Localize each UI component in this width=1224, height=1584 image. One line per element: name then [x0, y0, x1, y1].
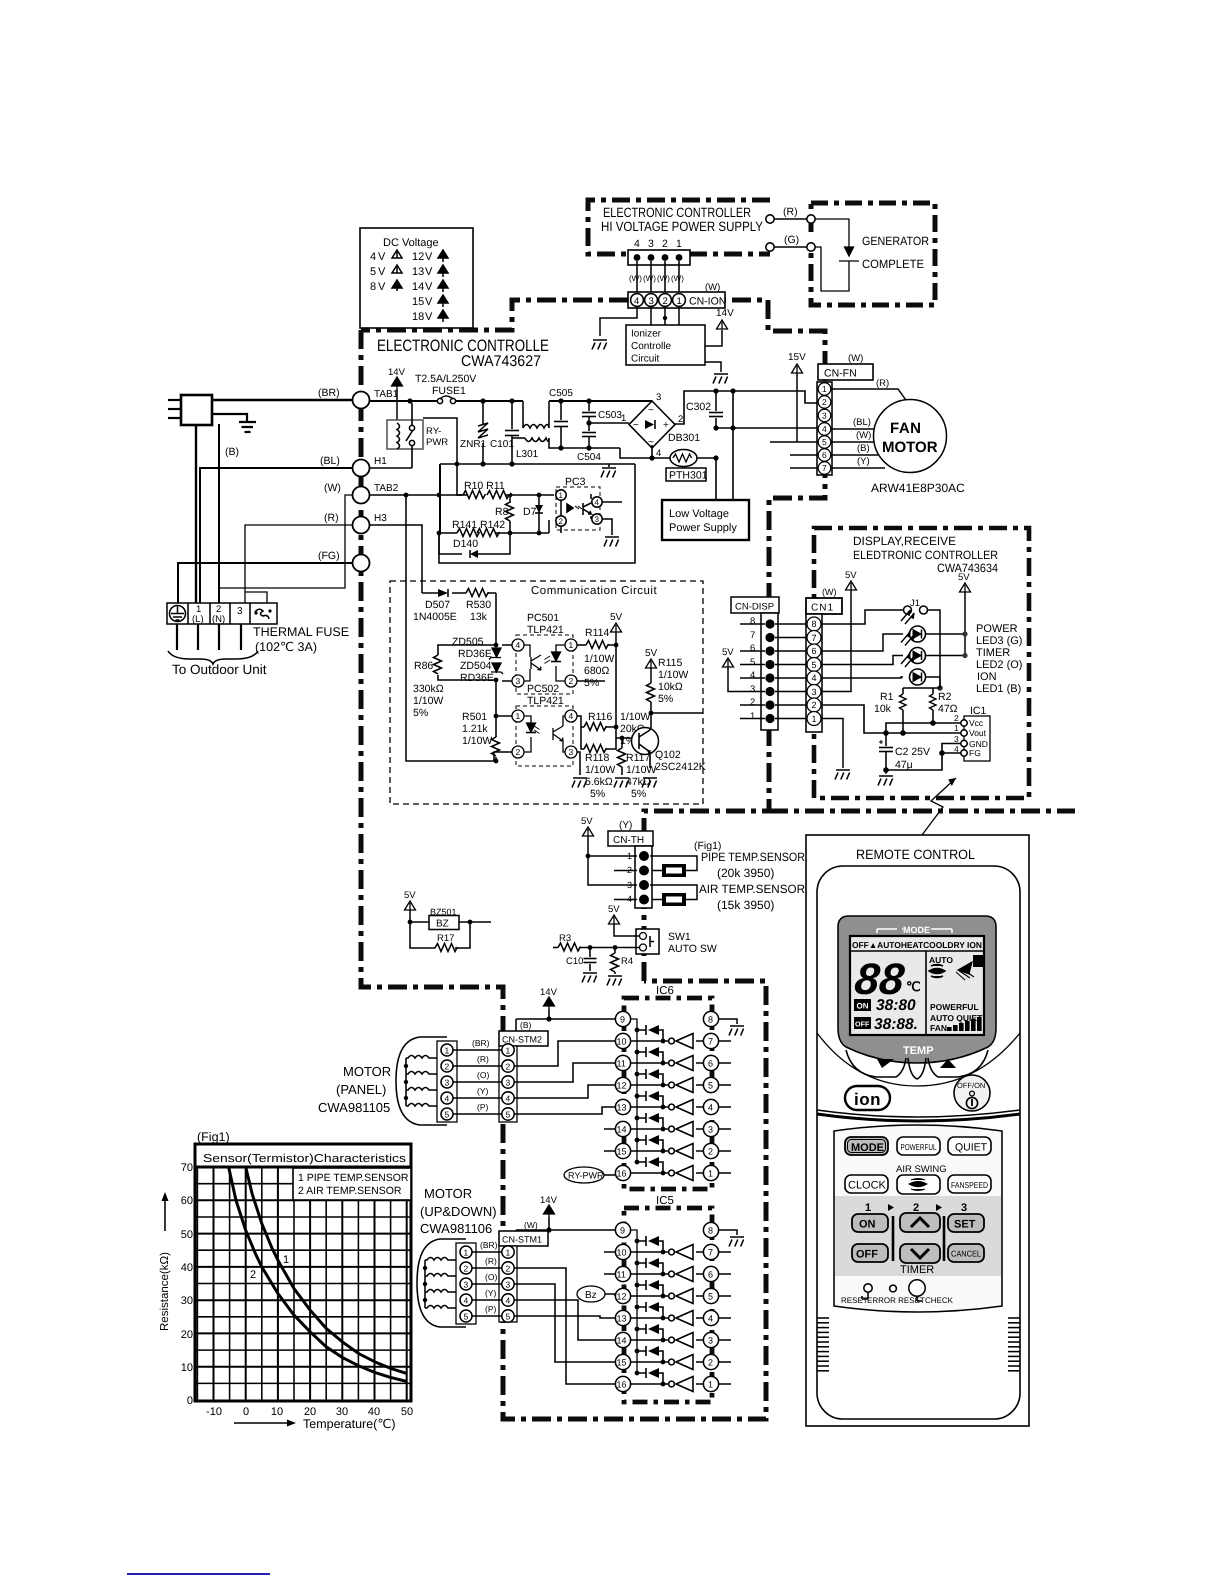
wire return loop + ground [439, 464, 635, 563]
svg-text:1: 1 [559, 491, 564, 500]
svg-text:2: 2 [708, 1358, 713, 1368]
wires H1/TAB2/H3/FG to terminal strip [178, 424, 352, 603]
svg-text:4: 4 [708, 1103, 713, 1113]
svg-text:CN-STM2: CN-STM2 [502, 1035, 542, 1045]
svg-text:R118: R118 [585, 752, 609, 764]
svg-text:ARW41E8P30AC: ARW41E8P30AC [871, 481, 965, 495]
svg-text:MOTOR: MOTOR [424, 1186, 472, 1201]
svg-text:10: 10 [617, 1248, 627, 1258]
wire AC rail from TAB1 [370, 400, 652, 402]
block Ionizer Controlle Circuit [626, 325, 705, 365]
svg-text:(BR): (BR) [480, 1240, 498, 1250]
svg-text:(W): (W) [629, 274, 642, 283]
wire rail to R141 row [439, 464, 441, 533]
svg-text:V: V [425, 296, 433, 308]
svg-text:RD36E: RD36E [460, 672, 494, 684]
svg-text:4: 4 [812, 673, 817, 683]
svg-text:1: 1 [954, 723, 959, 733]
svg-text:J1: J1 [910, 598, 920, 609]
arrow remote to IC1 [916, 778, 956, 843]
svg-text:38:88.: 38:88. [874, 1016, 918, 1033]
svg-text:3: 3 [812, 687, 817, 697]
svg-text:V: V [425, 251, 433, 263]
thermal fuse F-TH (102C 3A) [255, 609, 269, 619]
svg-text:(FG): (FG) [318, 550, 340, 562]
svg-text:(W): (W) [848, 353, 863, 364]
wire bridge pin2 to DC rail [652, 391, 817, 458]
grounds comm circuit [577, 752, 580, 775]
svg-text:To Outdoor Unit: To Outdoor Unit [172, 662, 267, 677]
svg-text:9: 9 [620, 1015, 625, 1025]
svg-text:V: V [378, 251, 386, 263]
svg-text:1: 1 [676, 238, 682, 250]
svg-text:60: 60 [181, 1195, 193, 1207]
svg-text:CWA981105: CWA981105 [318, 1100, 390, 1115]
svg-text:MOTOR: MOTOR [343, 1064, 391, 1079]
wires To Outdoor Unit + brace [177, 624, 241, 650]
svg-text:(W): (W) [643, 274, 656, 283]
thermistor PTH301 [670, 450, 697, 467]
svg-text:ELEDTRONIC CONTROLLER: ELEDTRONIC CONTROLLER [853, 548, 998, 562]
svg-text:-10: -10 [206, 1406, 222, 1418]
svg-text:1.21k: 1.21k [462, 723, 488, 735]
svg-text:8: 8 [708, 1015, 713, 1025]
svg-text:C503: C503 [598, 410, 622, 421]
svg-text:16: 16 [617, 1380, 627, 1390]
wires CN-FN to fan motor [831, 389, 908, 468]
svg-text:FG: FG [969, 748, 981, 758]
svg-text:11: 11 [617, 1270, 626, 1280]
svg-text:14V: 14V [716, 308, 734, 319]
svg-text:(Y): (Y) [619, 820, 632, 831]
wires CN1 to LEDs [821, 634, 903, 678]
svg-text:CN-ION: CN-ION [689, 296, 726, 308]
svg-text:5V: 5V [581, 816, 593, 827]
svg-text:2: 2 [708, 1147, 713, 1157]
svg-text:SET: SET [954, 1219, 976, 1231]
svg-text:RESET: RESET [841, 1296, 868, 1305]
connector header pins 4 3 2 1 [628, 250, 690, 265]
svg-text:TEMP: TEMP [903, 1045, 934, 1057]
svg-text:ION: ION [977, 671, 997, 683]
svg-text:1/10W: 1/10W [658, 669, 688, 681]
svg-text:0: 0 [187, 1395, 193, 1407]
svg-text:MODE: MODE [851, 1142, 884, 1154]
svg-text:SW1: SW1 [668, 931, 691, 943]
box Communication Circuit [390, 581, 703, 804]
svg-text:12: 12 [617, 1292, 627, 1302]
svg-text:2: 2 [506, 1062, 511, 1072]
svg-text:3: 3 [954, 734, 959, 744]
svg-text:Bz: Bz [585, 1290, 597, 1301]
svg-text:5%: 5% [584, 677, 599, 689]
svg-text:5V: 5V [404, 890, 416, 901]
svg-text:10: 10 [617, 1037, 627, 1047]
svg-text:8: 8 [708, 1226, 713, 1236]
svg-text:38:80: 38:80 [876, 997, 916, 1014]
svg-text:IC5: IC5 [656, 1195, 674, 1207]
terminal strip earth/1(L)/2(N)/3/fuse [167, 603, 277, 624]
svg-text:7: 7 [750, 630, 755, 641]
svg-text:5: 5 [506, 1312, 511, 1322]
svg-text:5V: 5V [845, 570, 857, 581]
svg-text:(B): (B) [857, 443, 870, 454]
svg-text:7: 7 [812, 633, 817, 643]
svg-text:CWA743627: CWA743627 [461, 353, 541, 370]
svg-text:5V: 5V [722, 647, 734, 658]
svg-text:1: 1 [445, 1046, 450, 1056]
svg-text:RY-: RY- [426, 426, 441, 437]
bridge rectifier DB301 [629, 401, 675, 448]
svg-text:CHECK: CHECK [925, 1296, 954, 1305]
svg-text:1/10W: 1/10W [462, 735, 492, 747]
svg-text:(Y): (Y) [485, 1288, 497, 1298]
svg-text:(W): (W) [524, 1220, 538, 1230]
svg-text:4: 4 [569, 711, 574, 721]
svg-text:8: 8 [750, 616, 755, 627]
svg-text:3: 3 [237, 606, 243, 617]
svg-text:DC Voltage: DC Voltage [383, 237, 439, 249]
motor M-UPDOWN CWA981106 [417, 1239, 466, 1327]
wire to bridge pin1 [589, 422, 629, 424]
svg-text:TLP421: TLP421 [527, 695, 564, 707]
svg-text:4: 4 [506, 1094, 511, 1104]
node Bz [577, 1286, 605, 1302]
svg-text:CN-FN: CN-FN [824, 368, 857, 380]
svg-text:12: 12 [617, 1081, 627, 1091]
svg-text:CLOCK: CLOCK [848, 1180, 887, 1192]
svg-text:4: 4 [750, 670, 755, 681]
svg-text:2: 2 [954, 713, 959, 723]
capacitor C302 + DC rail2 [620, 391, 817, 458]
footer blue line [127, 1573, 270, 1575]
svg-text:2: 2 [506, 1264, 511, 1274]
svg-text:R115: R115 [658, 657, 682, 669]
svg-text:MODE: MODE [903, 925, 930, 935]
svg-text:2: 2 [750, 697, 755, 708]
svg-text:D140: D140 [453, 538, 478, 550]
svg-text:RY-PWR: RY-PWR [568, 1171, 604, 1181]
svg-text:ZD505: ZD505 [452, 636, 484, 648]
svg-text:5: 5 [708, 1081, 713, 1091]
svg-text:(O): (O) [485, 1272, 497, 1282]
svg-text:AIR TEMP.SENSOR: AIR TEMP.SENSOR [699, 882, 805, 896]
varistor ZNR1 + capacitor C101 [478, 403, 519, 464]
svg-text:(G): (G) [784, 234, 799, 246]
wires IC1 Vcc/Vout/GND/FG [821, 705, 961, 770]
svg-text:D7: D7 [523, 506, 537, 518]
svg-text:5%: 5% [590, 788, 605, 800]
svg-text:C504: C504 [577, 452, 601, 463]
svg-text:R17: R17 [437, 933, 454, 944]
svg-text:(BL): (BL) [320, 455, 340, 467]
svg-text:PWR: PWR [426, 437, 448, 448]
svg-text:−: − [633, 420, 639, 431]
svg-text:(W): (W) [657, 274, 670, 283]
svg-text:FANSPEED: FANSPEED [951, 1180, 988, 1190]
svg-text:Vout: Vout [969, 728, 987, 738]
svg-text:13: 13 [412, 266, 424, 278]
svg-text:V: V [425, 266, 433, 278]
svg-text:4: 4 [506, 1296, 511, 1306]
board outline CWA743634 display/receive [814, 528, 1029, 798]
wire stubs CN-TH pins 2,4 [614, 871, 637, 900]
wire bottom AC rail [440, 463, 635, 465]
wire TAB2 to PC3 [370, 494, 554, 496]
svg-text:4: 4 [464, 1296, 469, 1306]
svg-text:3: 3 [595, 515, 600, 524]
svg-text:R114: R114 [585, 627, 609, 639]
svg-text:POWERFUL: POWERFUL [930, 1002, 979, 1012]
motor M-FAN (ARW41E8P30AC) [874, 400, 947, 473]
svg-text:CN-TH: CN-TH [613, 835, 644, 846]
wire border segment to display board [769, 809, 1075, 814]
svg-text:Q102: Q102 [655, 749, 681, 761]
svg-text:GENERATOR: GENERATOR [862, 234, 929, 248]
svg-text:1: 1 [621, 413, 626, 424]
svg-text:QUIET: QUIET [955, 1142, 988, 1154]
motor M-PANEL CWA981105 [396, 1037, 447, 1125]
svg-text:(P): (P) [477, 1102, 489, 1112]
svg-text:3: 3 [649, 296, 654, 307]
svg-text:LED3 (G): LED3 (G) [976, 635, 1022, 647]
svg-text:8: 8 [812, 619, 817, 629]
svg-text:14: 14 [617, 1336, 627, 1346]
generator symbol + labels [815, 219, 859, 291]
wires CN-STM1 to IC5 inputs [514, 1252, 615, 1384]
svg-text:7: 7 [822, 463, 827, 473]
svg-text:(BR): (BR) [318, 387, 340, 399]
capacitor C2 47u 25V [879, 733, 893, 770]
svg-text:7: 7 [708, 1037, 713, 1047]
svg-text:70: 70 [181, 1162, 193, 1174]
svg-text:14: 14 [412, 281, 424, 293]
svg-text:5: 5 [750, 657, 755, 668]
svg-text:Vcc: Vcc [969, 718, 984, 728]
svg-text:3: 3 [464, 1280, 469, 1290]
svg-text:(UP&DOWN): (UP&DOWN) [420, 1204, 497, 1219]
svg-text:3: 3 [708, 1125, 713, 1135]
svg-text:5%: 5% [658, 693, 673, 705]
svg-text:2SC2412K: 2SC2412K [655, 761, 706, 773]
svg-text:C2 25V: C2 25V [895, 746, 930, 758]
svg-text:CANCEL: CANCEL [951, 1249, 981, 1259]
svg-text:2: 2 [822, 397, 827, 407]
svg-text:12: 12 [412, 251, 424, 263]
svg-text:(W): (W) [856, 430, 871, 441]
svg-text:5V: 5V [610, 612, 623, 623]
svg-text:(W): (W) [671, 274, 684, 283]
svg-text:D507: D507 [425, 599, 450, 611]
labels POWER/TIMER/ION LED names [976, 623, 1022, 695]
svg-text:CN-STM1: CN-STM1 [502, 1235, 542, 1245]
node RY-PWR [564, 1167, 604, 1183]
svg-text:50: 50 [401, 1406, 413, 1418]
svg-text:15: 15 [617, 1358, 627, 1368]
wires to low voltage supply [716, 391, 733, 500]
remote control drawing [806, 835, 1029, 1426]
svg-text:(R): (R) [324, 512, 339, 524]
wire zener string net [495, 593, 497, 761]
svg-text:5.6kΩ: 5.6kΩ [585, 776, 613, 788]
svg-text:47μ: 47μ [895, 759, 913, 771]
svg-text:(Fig1): (Fig1) [197, 1130, 230, 1144]
svg-text:V: V [425, 311, 433, 323]
svg-text:(15k 3950): (15k 3950) [717, 898, 774, 912]
svg-text:4: 4 [370, 251, 376, 263]
svg-text:HI VOLTAGE POWER SUPPLY: HI VOLTAGE POWER SUPPLY [601, 219, 763, 234]
svg-text:C10: C10 [566, 956, 583, 967]
svg-text:Power Supply: Power Supply [669, 522, 737, 534]
svg-text:5%: 5% [413, 707, 428, 719]
svg-text:3: 3 [961, 1202, 967, 1214]
svg-text:(B): (B) [520, 1020, 532, 1030]
svg-text:(Y): (Y) [857, 456, 870, 467]
svg-text:10k: 10k [874, 703, 892, 715]
svg-text:R501: R501 [462, 711, 487, 723]
svg-text:3: 3 [822, 411, 827, 421]
zener diodes ZD505 ZD504 RD36E [489, 648, 503, 674]
svg-text:(R): (R) [477, 1054, 489, 1064]
svg-text:3: 3 [648, 238, 654, 250]
svg-text:TIMER: TIMER [900, 1264, 934, 1276]
terminals TAB1 H1 TAB2 H3 FG [353, 392, 370, 572]
ground CN1 pin1 [821, 719, 843, 769]
svg-text:1: 1 [677, 296, 682, 307]
svg-text:H3: H3 [374, 513, 387, 524]
svg-text:AIR SWING: AIR SWING [896, 1164, 947, 1175]
svg-text:FUSE1: FUSE1 [432, 385, 466, 397]
svg-text:2: 2 [464, 1264, 469, 1274]
LED emission arrows [901, 610, 914, 667]
svg-text:30: 30 [181, 1295, 193, 1307]
svg-text:4: 4 [634, 238, 640, 250]
wire relay to ZNR1 rail [423, 418, 457, 464]
resistor R117 47k [621, 738, 623, 748]
svg-text:1/10W: 1/10W [620, 711, 650, 723]
svg-text:5: 5 [370, 266, 376, 278]
svg-text:+: + [663, 420, 669, 431]
svg-text:3: 3 [656, 392, 661, 403]
svg-text:C101: C101 [490, 439, 514, 450]
svg-text:4: 4 [595, 498, 600, 507]
svg-text:14: 14 [617, 1125, 627, 1135]
svg-text:C505: C505 [549, 388, 573, 399]
svg-text:2: 2 [559, 517, 564, 526]
svg-text:PC501: PC501 [527, 612, 559, 624]
relay RY-PWR [387, 420, 423, 449]
svg-text:THERMAL FUSE: THERMAL FUSE [253, 625, 349, 639]
svg-text:6: 6 [812, 646, 817, 656]
svg-text:PIPE TEMP.SENSOR: PIPE TEMP.SENSOR [701, 850, 805, 864]
block Low Voltage Power Supply [662, 500, 749, 540]
svg-text:2: 2 [662, 238, 668, 250]
inductor L301 [512, 401, 620, 448]
svg-text:Sensor(Termistor)Characteristi: Sensor(Termistor)Characteristics [203, 1153, 406, 1165]
svg-text:Circuit: Circuit [631, 354, 660, 365]
svg-text:(R): (R) [783, 206, 798, 218]
svg-text:1N4005E: 1N4005E [413, 611, 457, 623]
svg-text:18: 18 [412, 311, 424, 323]
capacitors C503 C504 [582, 403, 596, 448]
svg-text:(W): (W) [324, 482, 341, 494]
svg-text:8: 8 [370, 281, 376, 293]
svg-text:TIMER: TIMER [976, 647, 1010, 659]
svg-text:AUTO: AUTO [929, 955, 953, 965]
svg-text:1: 1 [750, 711, 755, 722]
svg-text:2 AIR TEMP.SENSOR: 2 AIR TEMP.SENSOR [298, 1185, 402, 1197]
svg-text:℃: ℃ [906, 979, 921, 994]
wire TAB2 to R501 net [406, 495, 512, 761]
svg-text:5: 5 [812, 660, 817, 670]
transistor Q102 2SC2412K [632, 728, 659, 755]
wires LED cathode rails + junctions [926, 634, 966, 677]
svg-text:POWERFUL: POWERFUL [901, 1142, 937, 1152]
svg-text:5V: 5V [958, 572, 970, 583]
svg-text:2: 2 [569, 676, 574, 686]
svg-text:1 PIPE TEMP.SENSOR: 1 PIPE TEMP.SENSOR [298, 1172, 409, 1184]
svg-text:15: 15 [617, 1147, 627, 1157]
svg-text:CWA981106: CWA981106 [420, 1221, 492, 1236]
wires motor to CN-STM2 [453, 1050, 502, 1114]
svg-text:OFF/ON: OFF/ON [957, 1081, 985, 1090]
svg-text:10kΩ: 10kΩ [658, 681, 683, 693]
connector CN-DISP pins 1-8 [731, 597, 779, 613]
svg-text:Resistance(kΩ): Resistance(kΩ) [159, 1252, 171, 1331]
svg-text:330kΩ: 330kΩ [413, 683, 444, 695]
svg-text:(B): (B) [225, 446, 239, 458]
svg-text:OFF: OFF [856, 1249, 878, 1261]
svg-text:5: 5 [822, 437, 827, 447]
svg-text:V: V [378, 266, 386, 278]
svg-text:1: 1 [464, 1248, 469, 1258]
svg-text:CN-DISP: CN-DISP [735, 602, 774, 613]
svg-text:6: 6 [708, 1059, 713, 1069]
svg-text:DB301: DB301 [668, 432, 700, 444]
svg-text:10: 10 [181, 1362, 193, 1374]
svg-text:(W): (W) [822, 587, 837, 597]
board outline CWA743627 (dash-dot border) [361, 330, 766, 1419]
svg-text:Controlle: Controlle [631, 341, 671, 352]
svg-text:5: 5 [708, 1292, 713, 1302]
box ELECTRONIC CONTROLLER HI VOLTAGE POWER SUPPLY [588, 200, 770, 254]
svg-text:R4: R4 [621, 956, 633, 967]
svg-text:2: 2 [516, 747, 521, 757]
svg-text:CN1: CN1 [811, 603, 834, 614]
svg-text:1: 1 [812, 714, 817, 724]
svg-text:20: 20 [181, 1329, 193, 1341]
svg-text:4: 4 [708, 1314, 713, 1324]
svg-text:ON: ON [857, 1002, 869, 1011]
svg-text:TAB2: TAB2 [374, 483, 399, 494]
wire plug to TAB1 [212, 399, 353, 401]
svg-text:3: 3 [516, 676, 521, 686]
svg-text:PC502: PC502 [527, 683, 559, 695]
svg-text:DISPLAY,RECEIVE: DISPLAY,RECEIVE [853, 534, 956, 548]
wires CN-DISP to CN1 [775, 624, 807, 719]
svg-text:1: 1 [569, 640, 574, 650]
svg-text:ON: ON [859, 1219, 876, 1231]
wires CN-ION to ionizer + ground [600, 306, 679, 336]
svg-text:ZNR1: ZNR1 [460, 439, 487, 450]
svg-text:(BL): (BL) [853, 417, 871, 428]
svg-text:Low Voltage: Low Voltage [669, 508, 729, 520]
svg-text:(R): (R) [876, 378, 889, 389]
svg-text:15V: 15V [788, 352, 806, 363]
svg-text:ZD504: ZD504 [460, 660, 492, 672]
svg-text:ELECTRONIC CONTROLLER: ELECTRONIC CONTROLLER [603, 205, 751, 220]
svg-text:ion: ion [854, 1090, 881, 1109]
